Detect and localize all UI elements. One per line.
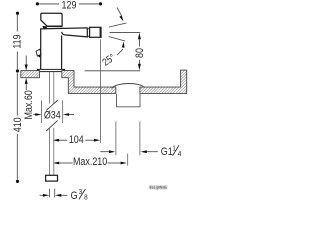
- dimension G3/8 ticks: [49, 189, 54, 198]
- stream axis line: [110, 31, 141, 33]
- dimension 119 line: [16, 15, 18, 70]
- svg-text:80: 80: [134, 48, 146, 58]
- dimension 80 line: [138, 39, 140, 64]
- dimension 119 top dot: [16, 12, 19, 15]
- pipe break slash lower: [46, 120, 57, 130]
- dimension 104 left arrow: [58, 139, 67, 141]
- svg-text:Ø34: Ø34: [44, 109, 61, 121]
- temperature limiter button: [36, 49, 41, 56]
- svg-text:129: 129: [62, 0, 77, 12]
- dimension 104 right arrow: [85, 139, 95, 141]
- dimension O34 left arrow: [33, 114, 37, 116]
- svg-text:tres griferia: tres griferia: [150, 186, 167, 190]
- dimension G1 1/4 left arrow: [100, 151, 110, 153]
- dimension 410 mid dot: [16, 69, 19, 72]
- drain cup: [117, 94, 141, 107]
- dimension 410 line: [16, 73, 18, 179]
- lever handle foot: [42, 26, 47, 29]
- dimension G3/8 right arrow: [59, 194, 67, 196]
- aerator: [90, 27, 101, 37]
- svg-text:8: 8: [84, 194, 88, 200]
- base flange left lip: [37, 69, 39, 72]
- dimension O34 right arrow: [67, 114, 74, 116]
- dimension 410 bottom dot: [16, 180, 19, 183]
- base flange right lip: [63, 69, 65, 72]
- dimension G3/8 left arrow: [40, 194, 45, 196]
- inlet fitting G3/8: [46, 175, 58, 181]
- dimension 129 line: [39, 3, 99, 5]
- aerator thick tip: [100, 27, 102, 38]
- spout gap ticks: [87, 28, 89, 37]
- 25 deg upper stream line: [109, 23, 127, 27]
- pipe break slash upper: [46, 100, 58, 110]
- bidet deck and bowl bottom left: [62, 71, 116, 94]
- dimension Max.210 left arrow: [58, 162, 72, 164]
- dimension O34 extension lines: [42, 101, 63, 124]
- drain extension line left: [115, 122, 117, 156]
- dimension 80 down arrow: [138, 64, 141, 71]
- svg-text:G1: G1: [161, 146, 173, 158]
- supply pipes: [50, 72, 54, 175]
- dimension Max.210 right arrow: [108, 162, 122, 164]
- spout tip extension line: [100, 40, 102, 143]
- drain dome arc: [112, 83, 145, 88]
- svg-text:119: 119: [12, 34, 24, 49]
- base flange: [37, 69, 64, 71]
- dimension 129 end dots: [36, 2, 39, 5]
- svg-text:G: G: [71, 190, 78, 200]
- svg-text:4: 4: [178, 150, 182, 158]
- svg-text:Max.210: Max.210: [73, 156, 108, 168]
- dimension 80 up arrow: [138, 33, 141, 40]
- G1 1/4 fraction slash: [173, 145, 179, 155]
- countertop left slab: [21, 71, 40, 78]
- svg-text:25°: 25°: [100, 51, 117, 68]
- 25 deg lower stream line: [109, 37, 125, 42]
- spout top line: [40, 28, 87, 29]
- spout underside and tip: [62, 28, 88, 37]
- watermark: [149, 185, 168, 190]
- dimension Max.60 arrows: [25, 56, 27, 91]
- 25 deg lower leader arrow: [117, 49, 123, 55]
- svg-text:Max.60: Max.60: [23, 90, 35, 120]
- rim reference line: [85, 70, 141, 72]
- svg-text:104: 104: [69, 134, 84, 146]
- lever handle: [41, 13, 62, 26]
- dimension Max.210 extension line: [127, 154, 129, 166]
- dimension G1 1/4 right arrow: [146, 151, 158, 153]
- bidet bowl bottom right and far rim: [140, 70, 187, 93]
- lever handle bottom edge: [47, 25, 62, 27]
- faucet body: [41, 29, 62, 69]
- G3/8 fraction slash: [79, 189, 85, 199]
- 25 deg upper leader arrow: [117, 7, 121, 15]
- drain extension line right: [139, 122, 141, 156]
